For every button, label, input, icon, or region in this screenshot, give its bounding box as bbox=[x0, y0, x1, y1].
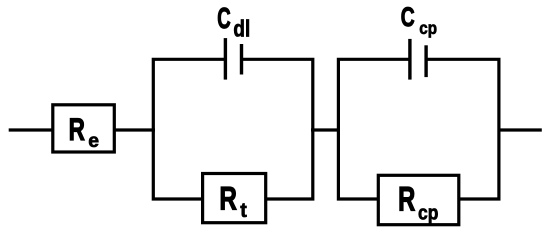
svg-text:C: C bbox=[401, 3, 415, 33]
svg-text:t: t bbox=[240, 200, 247, 222]
svg-text:R: R bbox=[69, 111, 85, 147]
svg-text:R: R bbox=[398, 180, 415, 218]
svg-text:e: e bbox=[88, 130, 99, 152]
svg-text:cp: cp bbox=[419, 18, 437, 38]
svg-text:C: C bbox=[217, 3, 230, 35]
svg-text:dl: dl bbox=[233, 17, 250, 42]
svg-text:cp: cp bbox=[418, 201, 438, 223]
svg-text:R: R bbox=[219, 181, 237, 217]
